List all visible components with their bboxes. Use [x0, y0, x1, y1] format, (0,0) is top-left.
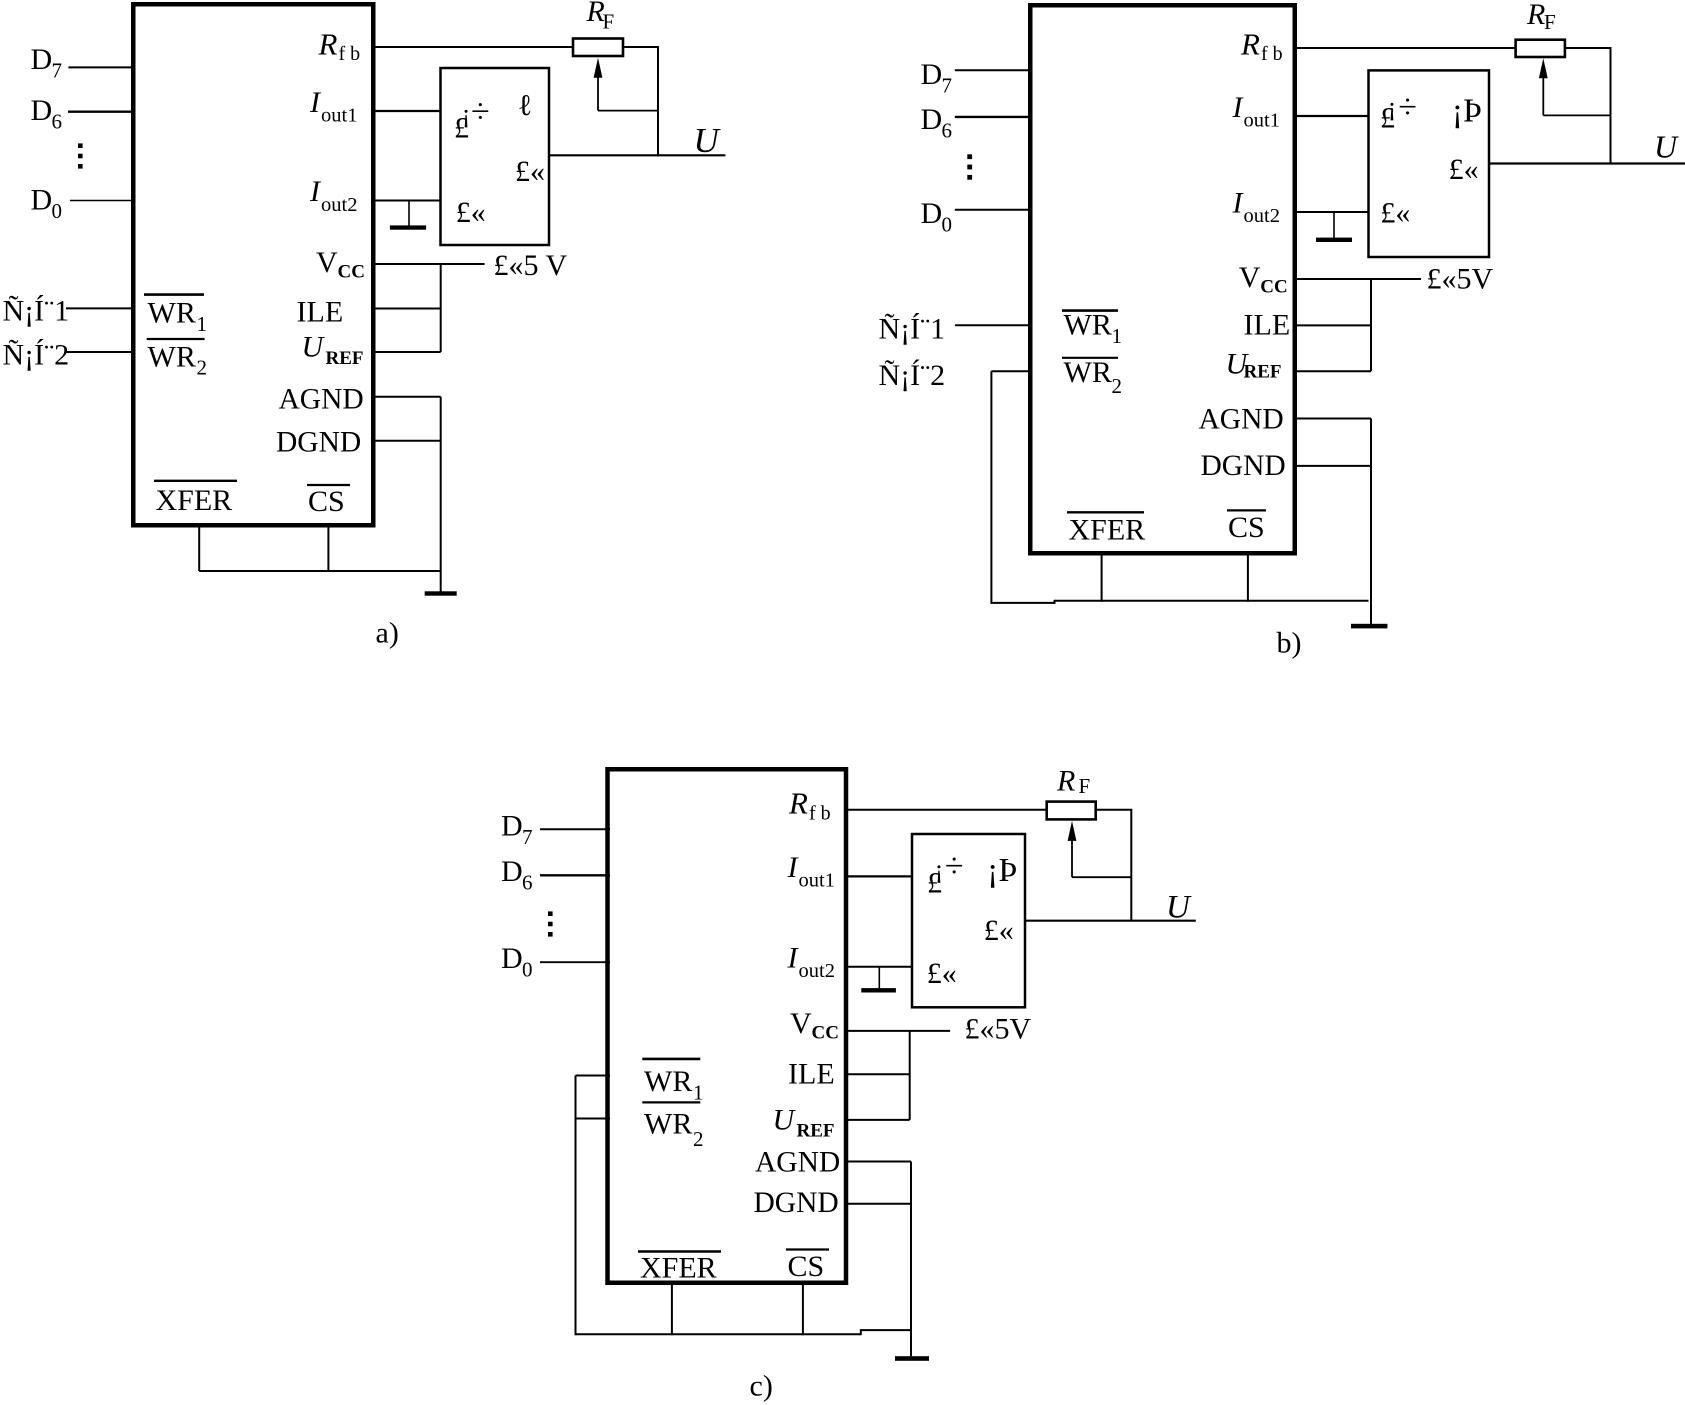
pin label Iout1 (a) [309, 86, 357, 127]
svg-text:out1: out1 [1244, 109, 1280, 131]
svg-text:WR: WR [644, 1108, 692, 1141]
svg-text:REF: REF [1244, 362, 1282, 383]
caption b) [1277, 627, 1302, 660]
pin label Rfb (c) [788, 786, 831, 825]
op-amp noninverting input plus (a) [456, 196, 486, 229]
bottom bus wire (b) [991, 600, 1368, 604]
svg-text:D: D [921, 58, 943, 91]
op-amp A2 (b) [1369, 70, 1490, 257]
svg-text:WR: WR [1064, 309, 1112, 342]
label RF (c) [1056, 765, 1090, 799]
input label select-2 (b) [879, 359, 946, 392]
wire UREF (c) [846, 1119, 910, 1121]
pin label WR1 with overline (b) [1062, 309, 1122, 349]
pin label Iout2 (c) [787, 941, 835, 982]
wire AGND-DGND down to ground (a) [440, 397, 442, 592]
svg-text:WR: WR [1064, 356, 1112, 389]
svg-text:f b: f b [339, 43, 361, 65]
svg-text:REF: REF [326, 348, 364, 369]
pin label Iout1 (b) [1232, 91, 1280, 132]
pin label WR2 with overline (b) [1062, 356, 1122, 398]
ground symbol bottom (a) [425, 591, 457, 595]
op-amp inverting input minus (a) [454, 93, 490, 144]
wire resistor RF to feedback node (c) [1096, 810, 1133, 921]
label RF (a) [586, 0, 615, 33]
svg-text:U: U [1654, 128, 1679, 164]
wire VCC-ILE-UREF tie (c) [909, 1031, 911, 1120]
svg-text:AGND: AGND [755, 1147, 840, 1179]
wire CS stub (b) [1247, 552, 1249, 602]
pin label VCC (b) [1239, 261, 1288, 298]
pin label UREF (c) [773, 1104, 835, 1142]
svg-text:CS: CS [1228, 511, 1265, 544]
svg-text:£«: £« [1380, 197, 1410, 230]
pin label Iout1 (c) [787, 851, 835, 892]
svg-text:V: V [790, 1007, 812, 1040]
ground symbol bottom (b) [1351, 624, 1387, 629]
svg-text:ILE: ILE [788, 1058, 835, 1091]
wire WR1 row (c) [576, 1075, 611, 1077]
wire select-1 to WR1 (a) [66, 307, 133, 309]
svg-text:f b: f b [1261, 43, 1283, 65]
wire VCC (a) [375, 263, 485, 265]
svg-text:£«: £« [984, 914, 1014, 947]
svg-text:£«: £« [927, 957, 957, 990]
svg-text:XFER: XFER [640, 1252, 717, 1285]
wire ILE (a) [375, 308, 441, 310]
svg-text:U: U [773, 1104, 797, 1137]
wire ILE (c) [846, 1073, 910, 1075]
output wire U (b) [1489, 162, 1685, 164]
op-amp gain mark infinity (c) [987, 852, 1017, 889]
wire WR2 row (c) [576, 1118, 611, 1120]
wire AGND (a) [375, 396, 441, 398]
caption a) [376, 617, 399, 650]
pin label AGND (b) [1199, 404, 1284, 436]
pin label VCC (a) [316, 246, 365, 283]
pin label WR1 with overline (c) [642, 1059, 703, 1105]
output label U (a) [694, 121, 722, 160]
pin label AGND (a) [279, 383, 364, 415]
op-amp output plus (a) [515, 155, 545, 188]
svg-text:6: 6 [522, 871, 533, 895]
svg-text:WR: WR [148, 341, 196, 374]
svg-text:Ñ¡Í¨1: Ñ¡Í¨1 [879, 313, 946, 346]
svg-text:out1: out1 [321, 104, 357, 126]
svg-text:1: 1 [693, 1081, 704, 1105]
svg-text:÷: ÷ [471, 93, 490, 130]
wire Rfb to resistor RF (a) [375, 46, 573, 48]
svg-text:R: R [1056, 765, 1075, 798]
label +5V (a) [494, 249, 568, 282]
svg-text:CC: CC [812, 1023, 839, 1044]
svg-text:DGND: DGND [1201, 450, 1286, 482]
svg-text:D: D [501, 942, 523, 975]
wire AGND-DGND down to ground (c) [910, 1162, 912, 1357]
label RF (b) [1526, 0, 1556, 34]
op-amp A1 (a) [441, 68, 550, 245]
svg-text:ℓ: ℓ [518, 89, 532, 122]
wire D6 (c) [540, 874, 610, 876]
wire UREF (b) [1295, 370, 1371, 372]
svg-text:CC: CC [338, 262, 365, 283]
input label D6 (c) [501, 855, 533, 895]
svg-text:CC: CC [1260, 277, 1287, 298]
pin label ILE (c) [788, 1058, 835, 1091]
DAC0832 chip U1 (circuit a) [133, 4, 373, 525]
svg-text:V: V [1239, 261, 1261, 294]
svg-text:7: 7 [52, 59, 63, 83]
svg-text:XFER: XFER [1069, 513, 1146, 546]
svg-text:U: U [1166, 890, 1192, 926]
op-amp gain mark (a) [518, 89, 532, 122]
pin label WR2 with overline (a) [147, 339, 207, 380]
svg-text:out2: out2 [799, 960, 835, 982]
svg-text:1: 1 [1112, 324, 1123, 348]
pin label CS with overline (a) [307, 485, 350, 518]
pin label XFER with overline (b) [1067, 512, 1145, 546]
wire D0 (a) [70, 200, 133, 202]
input label D0 (b) [921, 197, 953, 237]
op-amp inverting input minus (b) [1380, 89, 1417, 135]
pin label DGND (a) [276, 427, 361, 459]
svg-text:CS: CS [308, 485, 345, 518]
svg-text:¡Þ: ¡Þ [987, 852, 1017, 889]
pin label UREF (a) [302, 331, 364, 370]
wire select-1 to WR1 (b) [955, 324, 1032, 326]
pin label ILE (b) [1244, 308, 1291, 341]
wire VCC-ILE-UREF tie (b) [1370, 279, 1372, 371]
svg-text:0: 0 [52, 199, 63, 223]
wire D7 (b) [955, 69, 1032, 71]
pin label WR1 with overline (a) [144, 295, 207, 336]
input label D7 (b) [921, 58, 953, 98]
svg-text:D: D [921, 197, 943, 230]
svg-text:Ñ¡Í¨2: Ñ¡Í¨2 [879, 359, 946, 392]
svg-text:U: U [302, 331, 326, 364]
resistor RF (a) [573, 39, 623, 57]
potentiometer wiper arrow (b) [1539, 58, 1611, 115]
resistor RF (c) [1047, 802, 1096, 820]
svg-text:b): b) [1277, 627, 1302, 660]
wire XFER stub (c) [671, 1281, 673, 1335]
svg-text:R: R [788, 786, 808, 821]
pin label ILE (a) [297, 295, 344, 328]
svg-text:D: D [501, 855, 523, 888]
pin label DGND (b) [1201, 450, 1286, 482]
input label select-1 (a) [3, 295, 70, 328]
pin label CS with overline (c) [786, 1250, 829, 1284]
svg-text:ILE: ILE [297, 295, 344, 328]
svg-text:R: R [1240, 26, 1260, 61]
wire XFER stub (b) [1101, 552, 1103, 602]
wire VCC (c) [846, 1030, 950, 1032]
ground at Iout2 (b) [1316, 212, 1352, 242]
ellipsis dots (a) [78, 143, 83, 168]
wire D0 (b) [955, 209, 1032, 211]
wire XFER stub (a) [198, 526, 200, 571]
svg-text:WR: WR [148, 297, 196, 330]
pin label Iout2 (b) [1232, 187, 1280, 228]
wire resistor RF to feedback node (a) [623, 47, 659, 155]
svg-text:F: F [603, 9, 615, 33]
DAC0832 chip U3 (circuit c) [608, 769, 847, 1283]
pin label UREF (b) [1226, 348, 1282, 383]
DAC0832 chip U2 (circuit b) [1030, 5, 1295, 553]
wire D6 (a) [68, 110, 133, 112]
svg-text:1: 1 [197, 312, 208, 336]
svg-text:D: D [31, 183, 53, 216]
svg-text:6: 6 [942, 119, 953, 143]
svg-text:2: 2 [693, 1127, 704, 1151]
wire Rfb to resistor RF (b) [1295, 47, 1516, 49]
svg-text:out2: out2 [1244, 205, 1280, 227]
pin label WR2 with overline (c) [642, 1102, 703, 1151]
svg-text:REF: REF [797, 1121, 835, 1142]
svg-text:¡: ¡ [935, 854, 944, 883]
wire Iout2 to op-amp (b) [1295, 211, 1369, 213]
svg-text:F: F [1079, 774, 1091, 798]
op-amp inverting input minus (c) [927, 848, 964, 900]
wire left vertical WR tie to bottom bus (c) [575, 1076, 577, 1336]
pin label Rfb (b) [1240, 26, 1283, 64]
input label D7 (c) [501, 810, 533, 850]
svg-text:R: R [318, 26, 338, 61]
output label U (b) [1654, 128, 1679, 164]
svg-text:ILE: ILE [1244, 308, 1291, 341]
svg-text:V: V [316, 246, 338, 279]
svg-text:D: D [501, 810, 523, 843]
output wire U (c) [1025, 920, 1196, 922]
wire AGND (c) [846, 1161, 911, 1163]
svg-text:0: 0 [522, 958, 533, 982]
wire VCC-ILE-UREF tie (a) [440, 264, 442, 352]
svg-text:0: 0 [942, 213, 953, 237]
wire select-2 to WR2 (a) [66, 351, 133, 353]
wire D7 (c) [540, 828, 610, 830]
svg-text:7: 7 [522, 825, 533, 849]
svg-text:DGND: DGND [276, 427, 361, 459]
pin label XFER with overline (c) [638, 1252, 721, 1285]
op-amp gain mark infinity (b) [1452, 93, 1482, 130]
wire UREF (a) [375, 351, 441, 353]
wire D7 (a) [68, 66, 133, 68]
svg-text:£«: £« [456, 196, 486, 229]
svg-text:c): c) [750, 1370, 773, 1403]
op-amp output plus (c) [984, 914, 1014, 947]
wire Iout1 to op-amp (a) [375, 110, 441, 112]
wire Iout1 to op-amp (b) [1295, 115, 1369, 117]
svg-text:WR: WR [644, 1065, 692, 1098]
svg-text:R: R [1526, 0, 1545, 31]
pin label CS with overline (b) [1227, 510, 1266, 544]
wire Iout1 to op-amp (c) [846, 875, 912, 877]
svg-text:D: D [31, 94, 53, 127]
svg-text:DGND: DGND [754, 1187, 839, 1219]
svg-text:£«5V: £«5V [1427, 263, 1494, 296]
svg-text:6: 6 [52, 110, 63, 134]
svg-text:D: D [921, 103, 943, 136]
svg-text:AGND: AGND [1199, 404, 1284, 436]
input label D6 (b) [921, 103, 953, 143]
svg-text:2: 2 [197, 356, 208, 380]
op-amp noninverting input plus (b) [1380, 197, 1410, 230]
wire DGND (c) [846, 1203, 911, 1205]
wire D6 (b) [955, 116, 1032, 118]
wire DGND (b) [1295, 465, 1371, 467]
wire WR2 row (b) [991, 370, 1032, 372]
input label D6 (a) [31, 94, 63, 134]
svg-text:7: 7 [942, 74, 953, 98]
output wire U (a) [549, 154, 725, 156]
label +5V (c) [965, 1013, 1032, 1046]
pin label AGND (c) [755, 1147, 840, 1179]
svg-text:D: D [31, 43, 53, 76]
ellipsis dots (c) [548, 911, 553, 936]
input label select-1 (b) [879, 313, 946, 346]
bottom bus wire (a) [199, 570, 441, 572]
svg-text:Ñ¡Í¨2: Ñ¡Í¨2 [3, 339, 70, 372]
svg-text:XFER: XFER [156, 484, 233, 517]
input label select-2 (a) [3, 339, 70, 372]
potentiometer wiper arrow (a) [594, 58, 658, 111]
wire D0 (c) [540, 961, 610, 963]
op-amp A3 (c) [912, 834, 1025, 1007]
wire DGND (a) [375, 440, 441, 442]
svg-text:£«5 V: £«5 V [494, 249, 568, 282]
svg-text:£«: £« [1449, 153, 1479, 186]
svg-text:2: 2 [1112, 374, 1123, 398]
wire Iout2 to op-amp (a) [375, 200, 441, 202]
svg-text:Ñ¡Í¨1: Ñ¡Í¨1 [3, 295, 70, 328]
svg-text:AGND: AGND [279, 383, 364, 415]
svg-text:out1: out1 [799, 870, 835, 892]
svg-text:¡Þ: ¡Þ [1452, 93, 1482, 130]
wire AGND (b) [1295, 418, 1371, 420]
pin label DGND (c) [754, 1187, 839, 1219]
input label D0 (a) [31, 183, 63, 223]
input label D7 (a) [31, 43, 63, 83]
svg-text:a): a) [376, 617, 399, 650]
wire left vertical to bottom bus (b) [990, 371, 992, 604]
svg-text:U: U [694, 121, 722, 160]
pin label XFER with overline (a) [154, 481, 237, 517]
ground at Iout2 (c) [861, 967, 896, 993]
op-amp output plus (b) [1449, 153, 1479, 186]
svg-text:¡: ¡ [1388, 92, 1397, 121]
op-amp noninverting input plus (c) [927, 957, 957, 990]
label +5V (b) [1427, 263, 1494, 296]
pin label Rfb (a) [318, 26, 361, 64]
caption c) [750, 1370, 773, 1403]
svg-text:÷: ÷ [945, 848, 964, 885]
bottom bus wire (c) [576, 1329, 912, 1335]
wire resistor RF to feedback node (b) [1565, 48, 1612, 164]
svg-text:f b: f b [809, 802, 831, 824]
svg-text:¡: ¡ [462, 99, 471, 128]
svg-text:F: F [1544, 10, 1556, 34]
potentiometer wiper arrow (c) [1068, 821, 1132, 877]
wire AGND-DGND down to ground (b) [1370, 419, 1372, 626]
wire CS stub (c) [802, 1281, 804, 1335]
ground at Iout2 (a) [390, 201, 426, 230]
wire CS stub (a) [327, 526, 329, 571]
pin label Iout2 (a) [309, 175, 357, 216]
ground symbol bottom (c) [895, 1356, 929, 1361]
svg-text:÷: ÷ [1398, 89, 1417, 126]
wire Rfb to resistor RF (c) [846, 809, 1047, 811]
ellipsis dots (b) [967, 154, 972, 179]
wire Iout2 to op-amp (c) [846, 966, 912, 968]
resistor RF (b) [1516, 40, 1565, 57]
svg-text:£«: £« [515, 155, 545, 188]
wire VCC (b) [1295, 278, 1421, 280]
input label D0 (c) [501, 942, 533, 982]
svg-text:CS: CS [788, 1250, 825, 1283]
svg-text:out2: out2 [321, 194, 357, 216]
wire ILE (b) [1295, 324, 1371, 326]
output label U (c) [1166, 890, 1192, 926]
svg-text:£«5V: £«5V [965, 1013, 1032, 1046]
pin label VCC (c) [790, 1007, 839, 1044]
